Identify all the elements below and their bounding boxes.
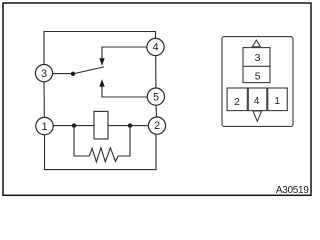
svg-text:4: 4	[153, 42, 159, 54]
svg-text:4: 4	[254, 95, 260, 107]
svg-text:1: 1	[274, 95, 280, 107]
svg-text:3: 3	[255, 52, 261, 64]
svg-text:A30519: A30519	[276, 185, 309, 196]
svg-text:5: 5	[153, 92, 159, 104]
svg-text:2: 2	[234, 96, 240, 108]
svg-text:2: 2	[154, 120, 160, 132]
svg-text:1: 1	[42, 121, 48, 133]
svg-text:3: 3	[41, 68, 47, 80]
svg-text:5: 5	[255, 71, 261, 83]
